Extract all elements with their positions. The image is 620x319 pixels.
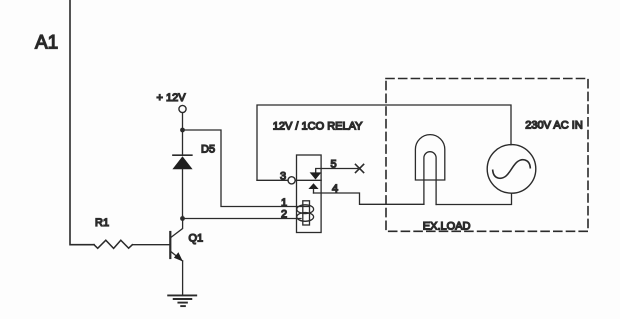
- svg-text:D5: D5: [201, 144, 215, 156]
- no-connect X: [356, 164, 364, 172]
- svg-text:EX.LOAD: EX.LOAD: [423, 221, 471, 233]
- wire: [436, 193, 511, 204]
- svg-text:5: 5: [331, 159, 337, 171]
- relay NC contact arrow: [310, 169, 358, 180]
- wire: [70, 0, 94, 245]
- wire: [132, 244, 170, 246]
- wire: [182, 130, 184, 155]
- relay common contact wire: [295, 179, 321, 181]
- node junction: [180, 128, 185, 133]
- dashed enclosure EX.LOAD: [386, 79, 588, 232]
- resistor R1: [94, 240, 132, 248]
- node junction: [180, 216, 185, 221]
- wire: [183, 130, 310, 207]
- wire: [182, 113, 184, 130]
- svg-text:1: 1: [281, 197, 287, 209]
- relay coil: [297, 201, 314, 225]
- relay U1 body: [297, 155, 322, 233]
- relay NO contact arrow: [308, 183, 318, 193]
- wire: [257, 179, 288, 181]
- wire: [182, 261, 184, 295]
- wire: [182, 169, 184, 218]
- transistor Q1: [170, 216, 183, 262]
- svg-text:Q1: Q1: [189, 233, 204, 245]
- svg-text:12V / 1CO RELAY: 12V / 1CO RELAY: [273, 121, 363, 133]
- svg-text:2: 2: [281, 209, 287, 221]
- lamp: [415, 135, 444, 205]
- svg-text:+ 12V: + 12V: [157, 92, 187, 104]
- ac source: [487, 145, 536, 194]
- terminal pin 3: [288, 177, 295, 184]
- wire: [314, 193, 424, 204]
- ground: [168, 295, 196, 306]
- svg-text:R1: R1: [95, 217, 109, 229]
- wire: [183, 218, 302, 220]
- wire: [257, 105, 511, 180]
- diode D5: [172, 155, 192, 169]
- power +12V terminal: [157, 92, 187, 113]
- svg-text:A1: A1: [35, 33, 58, 54]
- svg-text:230V AC IN: 230V AC IN: [525, 120, 583, 132]
